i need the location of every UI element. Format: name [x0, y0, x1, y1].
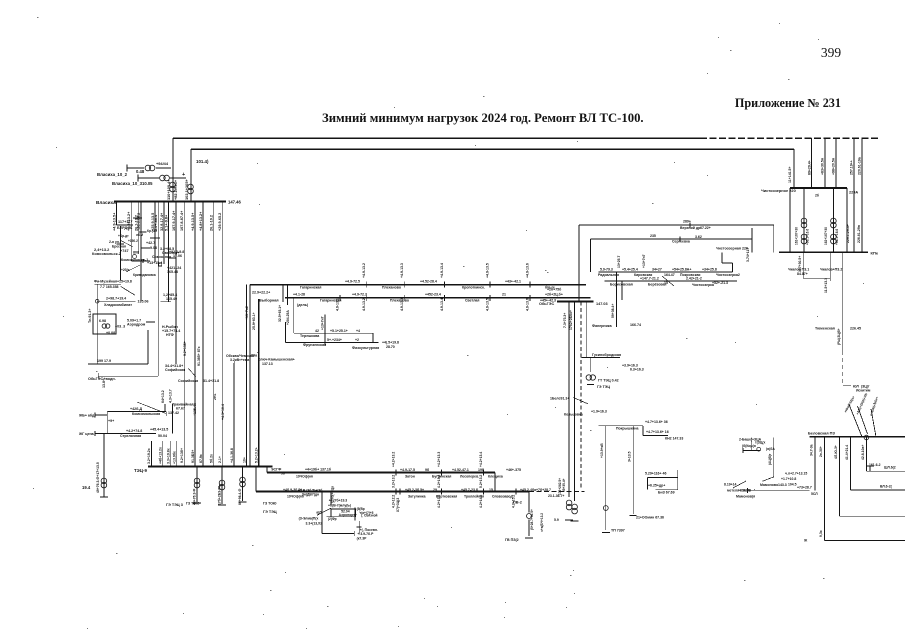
tap tick C2: [339, 295, 341, 301]
tap tick B1: [483, 470, 485, 476]
tap tick C1: [489, 282, 491, 288]
svg-text:107.9-17.4+: 107.9-17.4+: [172, 210, 176, 231]
svg-text:29: 29: [433, 488, 437, 492]
svg-text:2-я ул.: 2-я ул.: [109, 240, 120, 244]
svg-text:17.06: 17.06: [173, 254, 182, 258]
svg-text:5б.2х: 5б.2х: [210, 454, 214, 463]
wire drop a: [164, 404, 166, 412]
wire B2 dashed ext: [529, 491, 585, 493]
wire stair2 right v: [677, 470, 679, 490]
svg-text:+45.4+13.5: +45.4+13.5: [150, 428, 168, 432]
wire step h: [643, 435, 668, 437]
wire small drop R2: [621, 281, 623, 300]
svg-text:22.9+22.2+: 22.9+22.2+: [252, 291, 270, 295]
transformer TA: [566, 500, 572, 510]
wire mesh left rise: [285, 322, 287, 343]
svg-text:8.19+14: 8.19+14: [724, 483, 736, 487]
wire Покрышкина line: [599, 425, 643, 427]
wire left tail: [96, 284, 98, 364]
svg-text:БнЗ 67.69: БнЗ 67.69: [658, 491, 675, 495]
svg-text:235: 235: [650, 234, 656, 238]
terminal tick: [747, 488, 749, 493]
transformer TC833.4: [831, 218, 837, 228]
svg-text:32.5+63.1+: 32.5+63.1+: [278, 305, 282, 322]
bus Чистоозерное 220: [790, 187, 847, 189]
wire C drop 2: [246, 285, 248, 467]
wire mesh R1: [599, 271, 733, 273]
svg-text:КПк: КПк: [871, 251, 878, 256]
svg-text:ТЭЦ-9: ТЭЦ-9: [134, 468, 147, 473]
svg-text:67.67: 67.67: [176, 407, 185, 411]
wire drop +98+20.5А: [835, 138, 837, 188]
svg-text:11+141.5+: 11+141.5+: [788, 166, 792, 183]
svg-text:+4.3+16.4: +4.3+16.4: [221, 404, 225, 420]
svg-text:226.61-29н: 226.61-29н: [857, 225, 861, 243]
svg-text:ГЭ ТЭЦ: ГЭ ТЭЦ: [597, 385, 610, 389]
wire stub Власиха_10_3 b: [170, 177, 186, 179]
wire mesh seg a: [117, 224, 134, 226]
svg-text:Троллейная: Троллейная: [464, 494, 484, 498]
wire right line 471: [866, 470, 905, 472]
transformer circle ПС-2: [527, 514, 532, 519]
svg-text:Кр.(Зя: Кр.(Зя: [147, 229, 157, 233]
wire feeder F9: [175, 202, 177, 364]
svg-text:+13+7н2: +13+7н2: [245, 306, 249, 320]
svg-text:+5.4+25.4: +5.4+25.4: [622, 268, 638, 272]
svg-text:Кропоткинск.: Кропоткинск.: [462, 285, 485, 289]
svg-text:+4.1-36.8: +4.1-36.8: [230, 448, 234, 463]
svg-text:Ересная: Ересная: [112, 245, 126, 249]
svg-text:166.74: 166.74: [630, 323, 641, 327]
svg-text:4.3+13.7: 4.3+13.7: [169, 389, 173, 403]
transformer TC804: [801, 218, 807, 228]
wire feeder Обская: [233, 363, 235, 467]
svg-text:ч.л+2.7+13.15: ч.л+2.7+13.15: [785, 472, 807, 476]
wire Комсомольская line: [107, 411, 166, 413]
svg-text:+43+-42.1: +43+-42.1: [505, 280, 521, 284]
svg-text:Лесоперев.: Лесоперев.: [460, 474, 479, 478]
svg-text:+7б+28.7: +7б+28.7: [536, 488, 551, 492]
wire stub ЮЛ: [843, 385, 851, 387]
transformer circle ТП7397: [603, 506, 608, 511]
svg-text:Софийская: Софийская: [165, 368, 185, 372]
wire drop 850: [850, 437, 852, 490]
svg-text:49+76.3-Ф+17+13.5: 49+76.3-Ф+17+13.5: [96, 462, 100, 493]
svg-text:(РЫ(ЗЦ(б+: (РЫ(ЗЦ(б+: [837, 328, 841, 345]
tap tick C2: [529, 295, 531, 301]
svg-text:101.4): 101.4): [196, 159, 209, 164]
svg-text:+4.1-28: +4.1-28: [293, 293, 305, 297]
tap tick C1: [443, 282, 445, 288]
svg-text:метелл+ 1БПЗ: метелл+ 1БПЗ: [727, 489, 751, 493]
svg-text:31.4+31.8: 31.4+31.8: [203, 379, 219, 383]
svg-text:Власиха: Власиха: [96, 200, 116, 205]
wire arrow link e: [120, 240, 133, 247]
svg-text:+6.25+др+: +6.25+др+: [648, 484, 665, 488]
svg-text:ПВ-2: ПВ-2: [513, 501, 522, 505]
wire jog e: [133, 217, 142, 219]
svg-text:Совхозная: Совхозная: [152, 255, 171, 259]
svg-text:Гагаринская: Гагаринская: [320, 298, 341, 302]
wire feeder F8: [168, 202, 170, 302]
load terminal: [602, 532, 610, 534]
wire feeder F6: [157, 202, 159, 376]
wire ПС-2 drop: [528, 492, 530, 513]
svg-text:808: 808: [133, 251, 139, 255]
svg-text:+94/44: +94/44: [156, 161, 169, 166]
tap tick: [399, 489, 401, 495]
svg-text:(5+28.7+30.5+: (5+28.7+30.5+: [530, 509, 534, 530]
svg-text:(дель): (дель): [297, 303, 309, 307]
svg-text:89+98.4-Ф: 89+98.4-Ф: [238, 489, 242, 505]
svg-text:(к7.3Р: (к7.3Р: [357, 537, 368, 541]
wire long drop to bus: [578, 225, 580, 302]
svg-text:+98+20.5А: +98+20.5А: [832, 157, 836, 175]
svg-text:Плеханово: Плеханово: [382, 285, 401, 289]
svg-text:89+29.4+: 89+29.4+: [807, 160, 811, 175]
wire slant feeder 2: [858, 406, 868, 434]
svg-text:5.1+-9.8+: 5.1+-9.8+: [164, 214, 168, 231]
wire bracket h: [866, 465, 874, 467]
tap tick B2: [395, 489, 397, 495]
svg-text:Борисовская: Борисовская: [610, 283, 633, 287]
wire drop 774 to КПк: [773, 225, 775, 252]
wire small drop: [282, 285, 284, 302]
terminal tick: [94, 431, 96, 436]
svg-text:+13+7н7: +13+7н7: [642, 254, 646, 268]
svg-text:Бугринская: Бугринская: [432, 474, 451, 478]
tap tick C1: [365, 282, 367, 288]
svg-text:2+98.7+19.4: 2+98.7+19.4: [106, 297, 126, 301]
svg-text:4.9-13.2: 4.9-13.2: [362, 298, 366, 311]
terminal tick: [742, 448, 744, 453]
svg-text:10.05: 10.05: [142, 181, 153, 186]
svg-text:+73+28.7: +73+28.7: [797, 486, 812, 490]
svg-text:+Бр-дт: +Бр-дт: [118, 234, 129, 238]
tap tick B1: [395, 470, 397, 476]
svg-text:Беловская ПЗ: Беловская ПЗ: [808, 430, 835, 435]
svg-text:+: +: [182, 172, 185, 178]
wire bus step: [266, 467, 268, 473]
svg-text:2н-30+: 2н-30+: [819, 446, 823, 457]
wire drop: [165, 412, 167, 417]
load terminal: [571, 520, 579, 522]
svg-text:+4.9-13.5: +4.9-13.5: [486, 263, 490, 278]
svg-text:Затулинка: Затулинка: [408, 494, 426, 498]
load terminal: [565, 519, 573, 521]
wire drop to R1: [590, 239, 592, 272]
svg-text:ГЗ ТОЮ: ГЗ ТОЮ: [186, 502, 200, 506]
svg-text:Мамонов(я: Мамонов(я: [736, 495, 755, 499]
svg-text:+1.7+10.8: +1.7+10.8: [781, 477, 796, 481]
wire C1 left drop: [249, 285, 251, 467]
wire feeder F14: [221, 202, 223, 467]
load terminal: [525, 537, 533, 539]
transformer T4: [160, 175, 170, 181]
svg-text:15: 15: [664, 281, 668, 285]
svg-text:4.9-13.6: 4.9-13.6: [526, 298, 530, 311]
wire slant link: [121, 287, 135, 296]
svg-text:Комсомольская: Комсомольская: [132, 412, 160, 416]
terminal tick: [97, 373, 99, 379]
wire bracket v: [869, 466, 871, 471]
wire transformer feeder 2: [221, 467, 223, 505]
svg-text:Аэропорт+: Аэропорт+: [339, 513, 357, 517]
wire Хладокомбинат line: [97, 300, 136, 302]
wire line L2: [191, 148, 794, 150]
svg-text:Власиха_10_2: Власиха_10_2: [97, 172, 128, 177]
wire Чкалов drop 1: [829, 252, 831, 281]
svg-text:67.22+: 67.22+: [700, 226, 711, 230]
svg-text:229А: 229А: [849, 191, 858, 195]
svg-text:34.7-3а: 34.7-3а: [810, 444, 814, 456]
svg-text:17б+2БЗ-ФЬ: 17б+2БЗ-ФЬ: [218, 484, 222, 505]
svg-text:Хладокомбинат: Хладокомбинат: [104, 303, 132, 307]
svg-text:+52+-21.3: +52+-21.3: [712, 281, 728, 285]
svg-text:199 17.9: 199 17.9: [97, 359, 111, 363]
svg-text:2.42+21-2: 2.42+21-2: [686, 277, 702, 281]
svg-text:34+27: 34+27: [652, 268, 662, 272]
wire B1-B2 link: [494, 473, 496, 492]
wire chain A: [568, 302, 570, 498]
wire jog a: [141, 247, 150, 249]
tap tick C2: [403, 295, 405, 301]
wire feeder F4: [140, 202, 142, 301]
svg-text:226.45: 226.45: [850, 326, 861, 330]
svg-text:11.5+13.3: 11.5+13.3: [824, 278, 828, 293]
svg-text:143.3: 143.3: [778, 483, 787, 487]
svg-text:+4.9-13.2: +4.9-13.2: [362, 263, 366, 278]
svg-text:+147.7-21.2: +147.7-21.2: [640, 277, 659, 281]
svg-text:15: 15: [489, 488, 493, 492]
wire feeder F13: [213, 202, 215, 467]
wire drop to Власиха bus: [172, 138, 174, 201]
svg-text:13+25.7: 13+25.7: [617, 256, 621, 268]
svg-text:ЭСГФ: ЭСГФ: [271, 468, 281, 472]
wire drop 824: [823, 437, 825, 541]
svg-text:+29.9-65.2: +29.9-65.2: [218, 213, 222, 231]
svg-text:5.9: 5.9: [554, 518, 559, 522]
wire Верхний line: [579, 224, 774, 226]
svg-text:Т9а: Т9а: [251, 354, 257, 358]
wire ТП7397 drop: [605, 426, 607, 530]
svg-text:5СЛ: 5СЛ: [811, 492, 818, 496]
wire stub Власиха_10_2: [127, 167, 144, 169]
tap tick C1: [403, 282, 405, 288]
tap tick: [842, 324, 844, 331]
svg-text:ГЗ ТОЮ: ГЗ ТОЮ: [263, 502, 277, 506]
svg-text:64+13.2: 64+13.2: [161, 390, 165, 403]
transformer T3: [145, 165, 155, 171]
wire long seg 364: [88, 363, 148, 365]
wire Гусинобродская drop: [586, 302, 588, 358]
svg-text:+9+: +9+: [108, 419, 114, 423]
svg-text:лБМ: лБМ: [136, 233, 143, 237]
svg-text:+45.2-4ба: +45.2-4ба: [520, 488, 536, 492]
svg-text:9.2+13б+: 9.2+13б+: [180, 448, 184, 463]
svg-text:Фи-Музейная+15+19.8: Фи-Музейная+15+19.8: [94, 280, 132, 284]
svg-text:Светлая: Светлая: [465, 298, 479, 302]
svg-text:(+ЮЖ(+Ббн+: (+ЮЖ(+Ббн+: [869, 396, 879, 416]
svg-text:257.19++: 257.19++: [850, 160, 854, 175]
wire chain right: [846, 188, 848, 252]
svg-text:+1.9+16.3: +1.9+16.3: [591, 410, 607, 414]
bus КПк: [779, 251, 868, 253]
svg-text:Радиальная: Радиальная: [598, 273, 619, 277]
wire drop to КПк: [751, 228, 753, 252]
terminal tick: [94, 413, 96, 418]
svg-text:59+35.4+: 59+35.4+: [562, 478, 566, 492]
wire drop 866: [865, 437, 867, 471]
wire right tickline: [354, 507, 356, 520]
svg-text:Чистоозерка: Чистоозерка: [692, 283, 714, 287]
svg-text:ГЭ ТЭЦ 3: ГЭ ТЭЦ 3: [166, 503, 183, 507]
svg-text:3+13.5: 3+13.5: [628, 451, 632, 462]
svg-text:42: 42: [315, 329, 319, 333]
wire stub: [95, 414, 107, 416]
wire dashed chain: [580, 302, 582, 489]
bus Власиха: [114, 201, 226, 203]
wire slant метелл: [733, 481, 746, 488]
svg-text:+4.9-72.5: +4.9-72.5: [345, 280, 360, 284]
tap tick: [142, 259, 144, 263]
svg-text:399: 399: [821, 45, 842, 60]
wire transformer feeder 3: [242, 467, 244, 502]
wire Музейная line: [95, 283, 121, 285]
svg-text:+96.1+16.6: +96.1+16.6: [835, 229, 839, 245]
svg-text:+46+-375: +46+-375: [506, 468, 521, 472]
svg-text:41.4+21.4: 41.4+21.4: [845, 445, 849, 460]
wire chain B: [574, 302, 576, 502]
wire box bottom h: [322, 533, 355, 535]
svg-text:Стрелочная: Стрелочная: [120, 434, 141, 438]
wire drop 257.19++: [853, 138, 855, 252]
transformer circle Мамоново: [757, 447, 761, 451]
svg-text:+13.9бх: +13.9бх: [173, 451, 177, 464]
svg-text:Физкультурная: Физкультурная: [352, 346, 379, 350]
svg-text:БЕРДСК: БЕРДСК: [117, 226, 133, 230]
svg-text:2.1+: 2.1+: [218, 456, 222, 463]
svg-text:4.9-13.5: 4.9-13.5: [486, 298, 490, 311]
svg-text:+4.52-47.1: +4.52-47.1: [452, 468, 469, 472]
svg-text:Чкалов+ПЗ.2: Чкалов+ПЗ.2: [820, 268, 842, 272]
svg-text:110+109.4+: 110+109.4+: [166, 179, 171, 200]
wire line B2: [256, 491, 529, 493]
svg-text:+45.7-23.б: +45.7-23.б: [461, 488, 479, 492]
wire ПС-2 drop b: [528, 520, 530, 537]
svg-text:107.8-87.4+: 107.8-87.4+: [180, 210, 184, 231]
svg-text:+4(.5+19.8: +4(.5+19.8: [382, 341, 399, 345]
svg-text:10+: 10+: [242, 457, 246, 463]
wire drop 2 to Власиха bus: [190, 149, 192, 201]
svg-text:+4б+13.2х: +4б+13.2х: [159, 447, 163, 464]
wire jog b: [139, 231, 147, 233]
svg-text:104.5: 104.5: [788, 483, 797, 487]
wire bus step2: [255, 467, 257, 492]
wire Мамоново v1: [750, 438, 752, 451]
wire mesh R2: [605, 280, 737, 282]
tap tick: [689, 223, 691, 228]
svg-text:21+ООмин 67.36: 21+ООмин 67.36: [636, 516, 664, 520]
svg-text:3.2+13.2: 3.2+13.2: [392, 475, 396, 488]
svg-text:+4.9-13.3: +4.9-13.3: [400, 263, 404, 278]
wire Стрелочная line: [104, 433, 156, 435]
svg-text:164.47: 164.47: [664, 273, 675, 277]
tap tick C2: [443, 295, 445, 301]
svg-text:26.1-10.2: 26.1-10.2: [210, 215, 214, 231]
wire drop 815: [814, 437, 816, 491]
wire Терешкова line: [294, 332, 373, 334]
svg-text:165.49: 165.49: [166, 297, 177, 301]
box around T5 cluster: [93, 314, 116, 334]
svg-text:ЖГ цена: ЖГ цена: [78, 432, 95, 436]
svg-text:87.9х: 87.9х: [199, 454, 203, 463]
svg-text:КН2 147.33: КН2 147.33: [665, 437, 683, 441]
wire feeder F5: [154, 202, 156, 262]
svg-text:(. Связной: (. Связной: [361, 514, 377, 518]
wire right line 490: [851, 489, 905, 491]
svg-text:7.3+73.3+: 7.3+73.3+: [563, 313, 567, 328]
wire top line L1: [173, 137, 700, 139]
terminal tick: [233, 361, 235, 366]
svg-text:+45.2-3б.5+: +45.2-3б.5+: [405, 488, 424, 492]
wire slant Мамоново: [763, 477, 774, 481]
svg-text:157+30.5+: 157+30.5+: [798, 256, 802, 272]
svg-text:+96.1+16.6: +96.1+16.6: [806, 229, 810, 245]
svg-text:162+167+30: 162+167+30: [824, 227, 828, 245]
svg-text:Гусинобродская: Гусинобродская: [592, 353, 621, 357]
wire tail to transformer: [103, 434, 105, 498]
wire top line L1 dashed part: [700, 137, 879, 139]
wire stub above bus: [170, 441, 172, 467]
tap tick: [679, 237, 681, 242]
wire drop from L2: [793, 149, 795, 188]
svg-text:Оловозавод: Оловозавод: [492, 494, 513, 498]
svg-text:5.2+13.2: 5.2+13.2: [479, 475, 483, 488]
svg-text:ГТ ТЭЦ 0.42: ГТ ТЭЦ 0.42: [598, 379, 619, 383]
wire lower v: [358, 521, 360, 535]
svg-text:+4.9-17.5: +4.9-17.5: [400, 468, 415, 472]
wire slant feeder 1: [849, 404, 862, 437]
wire step v: [642, 426, 644, 436]
bus ТЭЦ-9: [148, 466, 273, 468]
transformer TC833.4b: [831, 234, 837, 244]
load terminal: [587, 384, 594, 386]
tap tick: [258, 356, 260, 361]
svg-text:+4.9-72.3: +4.9-72.3: [352, 293, 367, 297]
svg-text:162+167+30: 162+167+30: [795, 227, 799, 245]
svg-text:3.3+19.8х: 3.3+19.8х: [167, 448, 171, 464]
svg-text:+29.9-65.2: +29.9-65.2: [137, 213, 141, 231]
tap tick C1: [529, 282, 531, 288]
svg-text:НТФ: НТФ: [166, 333, 174, 337]
svg-text:+4.2+13.3: +4.2+13.3: [437, 452, 441, 467]
svg-text:5.29+116+ 46: 5.29+116+ 46: [645, 472, 666, 476]
wire C2 left drop: [258, 299, 260, 467]
transformer T2: [188, 184, 194, 194]
wire staircase h1: [722, 262, 733, 264]
svg-text:+2б+2Ц.б+: +2б+2Ц.б+: [545, 293, 563, 297]
transformer T6: [101, 478, 107, 488]
svg-text:Клещиха: Клещиха: [488, 474, 503, 478]
load terminal: [193, 502, 201, 504]
svg-text:(АЦ(б(т: (АЦ(б(т: [768, 453, 772, 465]
svg-text:42.8-10а+: 42.8-10а+: [861, 445, 865, 460]
svg-text:Х7(+ЗЦ(З: Х7(+ЗЦ(З: [396, 498, 400, 512]
svg-text:50.04: 50.04: [158, 434, 167, 438]
wire staircase v2: [732, 263, 734, 272]
wire staircase v1: [721, 252, 723, 263]
